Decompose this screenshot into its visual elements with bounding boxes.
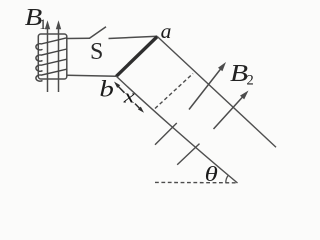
wire coil top to switch xyxy=(67,37,90,39)
B2 arrow 2 xyxy=(214,91,249,130)
dashed rod position xyxy=(155,74,193,109)
field tick 2 on bottom rail xyxy=(177,144,199,165)
coil L body rectangle xyxy=(38,34,67,79)
svg-text:θ: θ xyxy=(205,162,218,186)
svg-text:b: b xyxy=(99,76,114,101)
bottom rail from b xyxy=(116,76,237,183)
coil winding turn 4 xyxy=(36,69,67,81)
displacement x arrow xyxy=(114,82,144,113)
top rail from a xyxy=(157,37,276,148)
coil winding turn 2 xyxy=(36,49,67,61)
B2 arrow 1 xyxy=(189,62,226,110)
coil winding turn 1 xyxy=(36,38,67,50)
svg-text:2: 2 xyxy=(247,73,254,89)
rod ab xyxy=(116,37,157,77)
angle theta arc xyxy=(226,175,229,183)
wire switch to node a xyxy=(109,36,158,38)
B1 field line right arrow xyxy=(56,20,61,92)
svg-text:x: x xyxy=(122,86,135,107)
svg-text:1: 1 xyxy=(39,17,46,33)
field tick 1 on bottom rail xyxy=(155,123,177,145)
svg-text:B: B xyxy=(230,60,248,87)
dashed horizontal ground line xyxy=(155,181,237,183)
svg-text:S: S xyxy=(90,39,103,65)
switch S blade xyxy=(90,27,107,38)
svg-text:a: a xyxy=(161,19,172,43)
label B1 xyxy=(25,4,47,33)
B1 field line left arrow xyxy=(45,20,50,92)
label B2 xyxy=(230,60,254,89)
coil winding turn 3 xyxy=(36,59,67,71)
wire coil bottom to node b xyxy=(67,74,116,77)
